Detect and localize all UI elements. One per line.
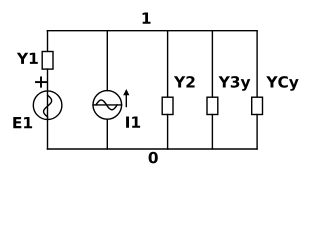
plus sign of E1 — [36, 77, 46, 86]
admittance Y3y — [207, 97, 218, 114]
node 0 label — [149, 152, 158, 164]
wire branch2 top segment — [106, 31, 108, 91]
wire branch2 bottom segment — [106, 119, 108, 149]
wire branch4 bottom segment — [211, 115, 213, 150]
wire branch5 top segment — [256, 31, 258, 98]
wire branch3 top segment — [167, 31, 169, 98]
voltage source E1 — [33, 91, 62, 120]
wire branch1 mid segment — [47, 69, 49, 149]
wire branch3 bottom segment — [167, 115, 169, 150]
admittance Y1 — [42, 52, 53, 70]
label Y3y — [219, 76, 251, 91]
label Y2 — [174, 76, 195, 87]
admittance YCy — [252, 97, 263, 114]
wire branch1 top segment — [47, 31, 49, 52]
current source I1 — [93, 91, 122, 120]
label YCy — [266, 76, 298, 91]
node 1 label — [143, 13, 151, 24]
current arrow of I1 — [125, 95, 127, 107]
wire top rail (node 1) — [47, 30, 257, 32]
label I1 — [126, 117, 140, 128]
wire bottom rail (node 0) — [47, 148, 257, 150]
admittance Y2 — [162, 97, 173, 114]
label E1 — [13, 117, 32, 128]
wire branch4 top segment — [211, 31, 213, 98]
label Y1 — [17, 53, 38, 64]
wire branch5 bottom segment — [256, 115, 258, 150]
